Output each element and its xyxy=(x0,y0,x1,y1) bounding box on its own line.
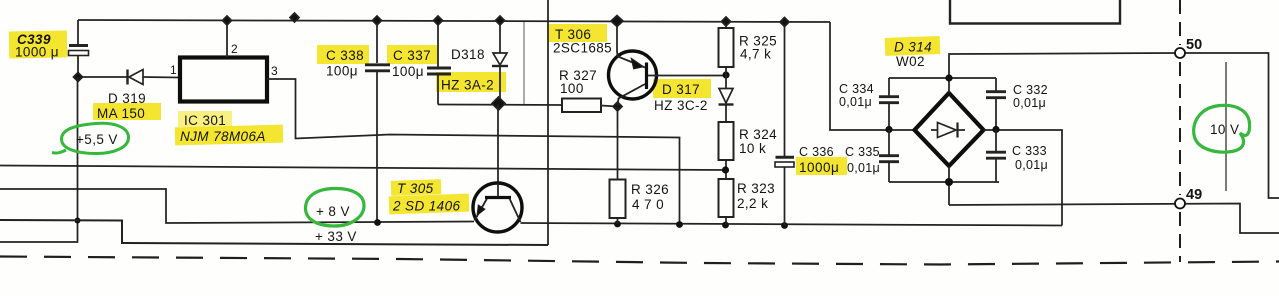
svg-text:2 SD 1406: 2 SD 1406 xyxy=(392,199,460,214)
node R325 on rail xyxy=(722,17,731,26)
svg-text:R 323: R 323 xyxy=(737,181,775,196)
svg-text:100μ: 100μ xyxy=(326,64,358,79)
node C332/C333 on right AC rail xyxy=(992,126,999,133)
svg-text:NJM 78M06A: NJM 78M06A xyxy=(180,129,266,144)
wire right AC rail to corner x1062 xyxy=(984,130,1063,226)
wire bridge top to terminal 50 xyxy=(949,53,1180,93)
svg-text:10 V: 10 V xyxy=(1210,122,1239,137)
wire collector rail C337 to R327 xyxy=(438,104,562,107)
highlight NJM78M06A label xyxy=(175,125,283,146)
svg-text:R 326: R 326 xyxy=(631,182,669,197)
svg-text:IC 301: IC 301 xyxy=(184,113,226,128)
node R323 bottom rail xyxy=(722,222,729,229)
resistor R326 xyxy=(617,107,619,180)
svg-text:D 314: D 314 xyxy=(894,40,932,55)
terminal 49 xyxy=(1175,199,1185,209)
wire bridge bottom to terminal 49 and right edge xyxy=(949,204,1279,234)
diode inside bridge xyxy=(931,129,938,131)
wire pin 2 from top rail xyxy=(226,21,228,58)
node T306 on top rail xyxy=(611,16,623,27)
highlight C338 label xyxy=(317,45,369,64)
wire T306 base to zener chain xyxy=(648,75,723,77)
wire R327 to T306 emitter node xyxy=(601,106,618,107)
svg-text:T 305: T 305 xyxy=(397,181,434,196)
svg-text:2: 2 xyxy=(231,42,238,56)
resistor R323 xyxy=(719,179,734,217)
diode D319 MA150 xyxy=(126,70,128,85)
node +5.5V line crossing dot xyxy=(75,218,81,224)
svg-text:C 336: C 336 xyxy=(799,145,834,159)
wire terminal 50 to right edge xyxy=(1180,53,1279,198)
highlight C336 value label xyxy=(796,157,847,175)
capacitor C333 xyxy=(995,130,997,152)
wire bottom cap rail C335-C333 xyxy=(889,181,999,183)
capacitor C339 xyxy=(77,20,79,44)
highlight T306 label xyxy=(549,24,607,42)
highlight MA150 label xyxy=(93,103,161,120)
svg-text:0,01μ: 0,01μ xyxy=(1013,96,1046,110)
svg-text:4 7 0: 4 7 0 xyxy=(632,197,664,212)
svg-text:HZ 3A-2: HZ 3A-2 xyxy=(441,78,494,93)
wire pin 3 out, down, and +6V line to the right xyxy=(267,79,680,226)
transistor Q306 (T306 2SC1685) xyxy=(616,21,618,52)
node base/R325/D317 junction xyxy=(722,71,729,78)
resistor R324 xyxy=(719,122,734,160)
wire faint vertical x524 xyxy=(523,22,525,104)
highlight 2SD1406 label xyxy=(389,194,470,215)
wire +5,5V branch down-left exit xyxy=(0,77,78,242)
svg-text:C 338: C 338 xyxy=(326,48,364,63)
svg-text:0,01μ: 0,01μ xyxy=(839,95,872,109)
boundary dash-dot vertical at terminals xyxy=(1179,0,1181,262)
node R324/R323 junction xyxy=(722,166,729,173)
highlight C337 label xyxy=(387,45,437,64)
node x679 bottom rail xyxy=(676,221,683,228)
node T306 emitter/R326 junction xyxy=(613,102,622,111)
node bridge bottom junction xyxy=(945,178,953,186)
highlight IC301 label xyxy=(178,111,232,127)
capacitor C334 xyxy=(888,78,890,96)
svg-text:10 k: 10 k xyxy=(739,141,766,156)
node C336 bottom rail xyxy=(781,222,788,229)
node x785 on top rail xyxy=(780,18,789,27)
node C334/C335 on left AC rail xyxy=(885,126,892,133)
svg-text:+ 33 V: + 33 V xyxy=(315,229,357,244)
svg-text:100: 100 xyxy=(560,81,584,96)
node C338 on rail xyxy=(373,16,382,25)
svg-text:C 334: C 334 xyxy=(839,82,874,96)
svg-text:2SC1685: 2SC1685 xyxy=(553,41,612,56)
node T305 collector junction xyxy=(492,97,505,110)
svg-text:+5,5 V: +5,5 V xyxy=(76,132,118,147)
svg-text:2,2 k: 2,2 k xyxy=(737,196,768,211)
svg-text:0,01μ: 0,01μ xyxy=(847,161,880,175)
wire T305 collector drop xyxy=(497,104,499,183)
wire +8V rail continuing right from T305 to far right corner xyxy=(521,223,1063,226)
node bridge top vertical crossing xyxy=(945,74,952,81)
svg-text:50: 50 xyxy=(1186,37,1202,53)
svg-text:C 335: C 335 xyxy=(845,145,880,159)
svg-text:MA 150: MA 150 xyxy=(97,106,145,121)
wire +33V feeder vertical x548 xyxy=(547,0,549,245)
highlight T305 label xyxy=(391,179,441,196)
svg-text:49: 49 xyxy=(1186,187,1202,203)
capacitor C338 xyxy=(376,21,378,64)
wire top cap rail C334-C332 xyxy=(889,77,996,79)
highlight C339 label xyxy=(9,30,67,58)
green circle 10V xyxy=(1194,105,1250,152)
capacitor C336 xyxy=(776,156,795,159)
svg-text:1: 1 xyxy=(170,63,177,77)
bridge rectifier D314 W02 xyxy=(915,93,984,166)
svg-text:0,01μ: 0,01μ xyxy=(1015,158,1048,172)
wire +33V line from left edge with jog xyxy=(0,220,548,245)
node R326 bottom rail xyxy=(614,221,621,228)
svg-text:1000 μ: 1000 μ xyxy=(15,45,59,60)
green circle +8V xyxy=(305,188,364,226)
wire left vertical x785 with C336 xyxy=(784,22,786,156)
svg-text:D 317: D 317 xyxy=(662,82,700,97)
zener diode D318 xyxy=(499,21,501,53)
measurement pointer line 10V xyxy=(1225,62,1227,191)
capacitor C335 xyxy=(888,130,890,155)
dashed bottom border xyxy=(0,257,1279,265)
svg-text:C 333: C 333 xyxy=(1012,144,1047,158)
resistor R325 xyxy=(725,22,727,29)
svg-text:100μ: 100μ xyxy=(392,64,424,79)
node C339/D319 junction xyxy=(74,73,83,82)
svg-text:D 319: D 319 xyxy=(108,91,146,106)
green circle +5,5V xyxy=(52,123,129,153)
highlight D317 label xyxy=(653,79,711,98)
highlight HZ3A-2 label xyxy=(436,72,506,92)
wire rail corner down to bridge left rail xyxy=(830,22,915,130)
svg-text:HZ 3C-2: HZ 3C-2 xyxy=(654,98,708,113)
wire +8V line from left edge with jog xyxy=(0,189,474,223)
zener diode D317 xyxy=(719,89,733,104)
node pin2 on rail xyxy=(223,16,232,25)
wire node to diode D319 xyxy=(82,76,127,78)
svg-text:C 332: C 332 xyxy=(1013,83,1048,97)
svg-text:3: 3 xyxy=(271,64,278,78)
svg-text:4,7 k: 4,7 k xyxy=(740,47,771,62)
svg-text:W02: W02 xyxy=(896,54,925,69)
op-amp regulator IC U301 box xyxy=(180,58,267,102)
svg-text:C 337: C 337 xyxy=(393,48,431,63)
wire diode to IC pin 1 xyxy=(143,76,179,79)
terminal 50 xyxy=(1175,48,1185,58)
svg-text:1000μ: 1000μ xyxy=(799,160,839,175)
node C337 on rail xyxy=(434,16,443,25)
capacitor C332 xyxy=(995,78,997,91)
partial component box top right xyxy=(950,0,1120,24)
svg-text:+ 8 V: + 8 V xyxy=(316,204,350,219)
svg-text:R 324: R 324 xyxy=(739,127,777,142)
svg-text:D318: D318 xyxy=(451,47,485,62)
wire bridge bottom to node xyxy=(948,166,950,205)
transistor Q305 (T305 2SD1406) xyxy=(473,183,522,232)
wire top supply rail xyxy=(78,20,830,22)
wire line1 from left edge to R324/R323 node xyxy=(0,166,726,171)
highlight D314 label xyxy=(885,36,941,56)
node C338 bottom on +8V rail xyxy=(374,219,381,226)
node D318 on rail xyxy=(496,16,505,25)
resistor R327 xyxy=(562,99,601,113)
capacitor C337 xyxy=(437,21,439,67)
node stray rail dot xyxy=(290,13,299,22)
